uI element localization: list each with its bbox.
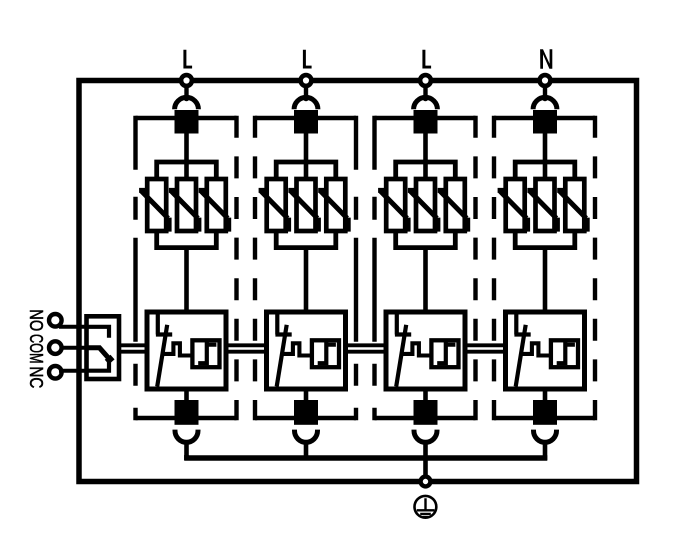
svg-text:COM: COM	[26, 334, 47, 364]
mechanical linkage twin line (x 226.5-267) lower	[227, 350, 268, 354]
terminal L2 circle	[301, 75, 312, 86]
varistor RV13 symbol stroke	[199, 190, 229, 231]
bottom contact (black square) module 3	[414, 400, 438, 425]
varistor RV11 symbol stroke	[139, 190, 169, 231]
label L (terminal 1)	[183, 50, 192, 69]
trigger linkage step line module 1	[162, 343, 193, 355]
varistor RV12 symbol stroke	[169, 190, 199, 231]
status indicator step symbol module 4	[557, 341, 575, 365]
varistor RV21 body	[267, 179, 286, 231]
wire to earth bus module 3	[423, 444, 428, 479]
varistor RV31 symbol stroke	[378, 190, 408, 231]
varistor RV42 body	[536, 179, 555, 231]
varistor bank top bus module 4	[515, 162, 575, 181]
varistor bank bottom bus module 2	[276, 229, 336, 248]
varistor bank bottom bus module 4	[515, 229, 575, 248]
plug pin stub terminal 3	[423, 87, 427, 96]
varistor RV22 body	[297, 179, 316, 231]
mechanical linkage twin line (x 465-506) upper	[465, 343, 506, 347]
wire to earth bus module 1	[184, 444, 189, 461]
wire varistor bank to disconnector box module 1	[184, 246, 189, 313]
varistor RV12 body	[177, 179, 196, 231]
wire stub module1 corner	[184, 455, 189, 460]
module 2 dashed enclosure top edge	[255, 116, 356, 120]
bottom contact (black square) module 4	[533, 400, 557, 425]
module 1 dashed enclosure right edge	[234, 116, 238, 420]
plug pin stub terminal 2	[304, 87, 308, 96]
label N (terminal 4)	[540, 49, 552, 69]
disconnector contact stem module 3	[395, 314, 411, 335]
thermal disconnector contact (top square) module 3	[414, 110, 438, 134]
module 1 dashed enclosure bottom edge	[136, 416, 237, 420]
remote signalling switch box	[87, 316, 120, 379]
wire square to varistor bank module 1	[184, 133, 189, 182]
wire NO to switch box	[59, 325, 88, 329]
plug socket arc (bottom) module 4	[534, 430, 557, 443]
disconnector contact stem module 2	[275, 314, 291, 335]
module 3 dashed enclosure top edge	[375, 116, 476, 120]
thermal disconnector monitor box module 1	[147, 312, 226, 389]
module 4 dashed enclosure right edge	[593, 116, 597, 420]
varistor RV32 body	[416, 179, 435, 231]
disconnector blade module 2	[277, 325, 287, 387]
wire square to varistor bank module 3	[423, 133, 428, 182]
remote contact terminal NO circle	[49, 314, 62, 327]
plug socket arc (top) module 3	[414, 97, 438, 109]
mechanical linkage twin line (x 226.5-267) upper	[227, 343, 268, 347]
disconnector blade module 3	[396, 325, 406, 387]
thermal disconnector monitor box module 4	[506, 312, 585, 389]
thermal disconnector monitor box module 3	[386, 312, 465, 389]
mechanical linkage twin line (x 345.5-386.5) lower	[346, 350, 387, 354]
varistor RV42 symbol stroke	[527, 190, 557, 231]
disconnector blade module 1	[157, 325, 167, 387]
module 4 dashed enclosure left edge	[492, 116, 496, 420]
varistor RV33 body	[446, 179, 465, 231]
earth node circle on enclosure bottom	[421, 477, 431, 487]
bottom contact (black square) module 2	[294, 400, 318, 425]
label L (terminal 3)	[422, 50, 431, 69]
varistor RV31 body	[386, 179, 405, 231]
varistor RV32 symbol stroke	[408, 190, 438, 231]
module 1 dashed enclosure top edge	[136, 116, 237, 120]
disconnector contact stem module 1	[156, 314, 172, 335]
status indicator step symbol module 1	[198, 341, 216, 365]
wire COM to switch box	[60, 346, 88, 350]
varistor RV13 body	[207, 179, 226, 231]
wire square to varistor bank module 2	[304, 133, 309, 182]
wire to earth bus module 2	[304, 444, 309, 461]
wire disconnector box to bottom contact module 2	[304, 389, 309, 401]
varistor RV21 symbol stroke	[259, 190, 289, 231]
terminal N4 circle	[540, 75, 551, 86]
varistor RV43 body	[565, 179, 584, 231]
plug pin stub terminal 1	[184, 87, 188, 96]
thermal disconnector contact (top square) module 1	[175, 110, 199, 134]
wire disconnector box to bottom contact module 3	[423, 389, 428, 401]
protective earth symbol circle	[415, 496, 437, 518]
plug socket arc (top) module 2	[294, 97, 318, 109]
plug socket arc (top) module 4	[533, 97, 557, 109]
module 4 dashed enclosure top edge	[494, 116, 595, 120]
module 2 dashed enclosure right edge	[354, 116, 358, 420]
wire disconnector box to bottom contact module 1	[184, 389, 189, 401]
varistor bank bottom bus module 3	[396, 229, 456, 248]
thermal disconnector monitor box module 2	[267, 312, 346, 389]
module 1 dashed enclosure left edge	[133, 116, 137, 420]
status indicator box module 1	[192, 340, 219, 367]
label L (terminal 2)	[303, 50, 312, 69]
svg-text:NC: NC	[26, 366, 47, 388]
changeover switch blade (COM)	[87, 348, 112, 361]
varistor bank top bus module 1	[157, 162, 217, 181]
module 4 dashed enclosure bottom edge	[494, 416, 595, 420]
status indicator box module 3	[431, 340, 458, 367]
remote contact terminal NC circle	[49, 366, 62, 379]
terminal L3 circle	[420, 75, 431, 86]
wire to earth bus module 4	[543, 444, 548, 461]
outer enclosure border / L-N top bus and earth bottom bus	[79, 81, 637, 482]
earth collecting bus wire	[184, 455, 547, 460]
wire NC to switch box	[59, 369, 88, 373]
status indicator step symbol module 2	[318, 341, 336, 365]
mechanical linkage twin line (x 345.5-386.5) upper	[346, 343, 387, 347]
varistor RV11 body	[147, 179, 166, 231]
remote contact terminal COM circle	[49, 341, 62, 354]
status indicator box module 2	[312, 340, 339, 367]
trigger linkage step line module 4	[521, 343, 552, 355]
status indicator step symbol module 3	[437, 341, 455, 365]
mechanical linkage twin line (x 119-147.5) lower	[119, 350, 148, 354]
varistor RV43 symbol stroke	[557, 190, 587, 231]
trigger linkage step line module 2	[282, 343, 313, 355]
varistor RV41 symbol stroke	[498, 190, 528, 231]
disconnector blade module 4	[516, 325, 526, 387]
protective earth symbol ground strokes	[417, 498, 435, 517]
NO fixed contact	[87, 327, 110, 338]
changeover switch blade tip	[108, 357, 112, 362]
varistor bank bottom bus module 1	[157, 229, 217, 248]
thermal disconnector contact (top square) module 4	[533, 110, 557, 134]
module 2 dashed enclosure bottom edge	[255, 416, 356, 420]
disconnector contact stem module 4	[514, 314, 530, 335]
module 2 dashed enclosure left edge	[253, 116, 257, 420]
wire varistor bank to disconnector box module 4	[543, 246, 548, 313]
NC fixed contact	[87, 361, 110, 371]
plug socket arc (top) module 1	[175, 97, 199, 109]
varistor RV23 symbol stroke	[318, 190, 348, 231]
module 3 dashed enclosure bottom edge	[375, 416, 476, 420]
module 3 dashed enclosure right edge	[473, 116, 477, 420]
varistor RV23 body	[326, 179, 345, 231]
varistor RV22 symbol stroke	[288, 190, 318, 231]
thermal disconnector contact (top square) module 2	[294, 110, 318, 134]
wire square to varistor bank module 4	[543, 133, 548, 182]
wire varistor bank to disconnector box module 2	[304, 246, 309, 313]
mechanical linkage twin line (x 465-506) lower	[465, 350, 506, 354]
wire varistor bank to disconnector box module 3	[423, 246, 428, 313]
varistor RV41 body	[506, 179, 525, 231]
status indicator box module 4	[551, 340, 578, 367]
terminal L1 circle	[181, 75, 192, 86]
module 3 dashed enclosure left edge	[372, 116, 376, 420]
plug pin stub terminal 4	[543, 87, 547, 96]
trigger linkage step line module 3	[401, 343, 432, 355]
svg-text:NO: NO	[26, 309, 47, 331]
mechanical linkage twin line (x 119-147.5) upper	[119, 343, 148, 347]
plug socket arc (bottom) module 2	[295, 430, 318, 443]
plug socket arc (bottom) module 1	[175, 430, 198, 443]
varistor RV33 symbol stroke	[438, 190, 468, 231]
bottom contact (black square) module 1	[175, 400, 199, 425]
varistor bank top bus module 2	[276, 162, 336, 181]
wire disconnector box to bottom contact module 4	[543, 389, 548, 401]
varistor bank top bus module 3	[396, 162, 456, 181]
plug socket arc (bottom) module 3	[414, 430, 437, 443]
